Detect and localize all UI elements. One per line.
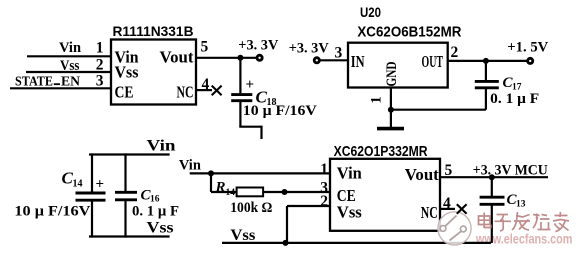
wire Vss to pin 2 bbox=[26, 71, 111, 73]
capacitor C17 bbox=[475, 81, 499, 87]
junction dot on CE net bbox=[282, 189, 288, 195]
watermark logo circle bbox=[438, 212, 471, 245]
svg-text:1: 1 bbox=[320, 161, 328, 178]
svg-text:100k Ω: 100k Ω bbox=[230, 200, 272, 216]
svg-text:+3. 3V MCU: +3. 3V MCU bbox=[473, 163, 548, 179]
wire C14 top lead bbox=[91, 153, 93, 192]
net label STATE_EN bbox=[15, 74, 80, 89]
svg-text:+3. 3V: +3. 3V bbox=[238, 38, 278, 54]
svg-text:Vin: Vin bbox=[147, 138, 176, 155]
svg-text:2: 2 bbox=[320, 193, 328, 210]
label C18 bbox=[256, 88, 277, 109]
junction dot Vss rail bbox=[283, 240, 289, 246]
watermark text dianzifashaoyou bbox=[479, 212, 570, 232]
svg-text:10 μ F/16V: 10 μ F/16V bbox=[14, 204, 90, 220]
svg-text:+1. 5V: +1. 5V bbox=[507, 40, 548, 56]
svg-text:NC: NC bbox=[177, 83, 194, 102]
svg-text:0. 1 μ F: 0. 1 μ F bbox=[490, 91, 539, 107]
svg-text:Vin: Vin bbox=[337, 164, 363, 183]
svg-text:Vin: Vin bbox=[179, 158, 202, 174]
regulator IC3 XC6201P332MR body bbox=[330, 159, 440, 231]
capacitor C16 bbox=[115, 192, 137, 200]
svg-text:2: 2 bbox=[96, 57, 104, 74]
wire Vin to IC3 pin 1 bbox=[190, 172, 330, 174]
wire C18 bottom down bbox=[239, 101, 241, 127]
svg-text:IN: IN bbox=[351, 52, 365, 71]
wire +3.3V node down to C18 bbox=[239, 58, 241, 93]
svg-text:OUT: OUT bbox=[422, 52, 444, 71]
svg-text:3: 3 bbox=[335, 45, 343, 62]
wire STATE_EN to pin 3 bbox=[10, 87, 111, 89]
svg-text:R1111N331B: R1111N331B bbox=[113, 23, 194, 39]
wire Vout pin 5 to +3.3V MCU bbox=[440, 176, 548, 178]
svg-text:Vss: Vss bbox=[147, 220, 174, 237]
svg-text:R: R bbox=[215, 180, 226, 196]
wire R14 right lead to CE pin 3 bbox=[263, 191, 330, 193]
wire C18 bottom right jog bbox=[239, 126, 261, 128]
junction dot OUT net bbox=[483, 58, 489, 64]
wire Vout net down to C13 bbox=[491, 177, 493, 196]
capacitor C13 bbox=[480, 197, 505, 204]
svg-text:CE: CE bbox=[115, 83, 134, 102]
capacitor C14 bbox=[76, 193, 106, 200]
wire C16 top lead bbox=[124, 153, 126, 192]
wire junction down to R14 bbox=[210, 173, 212, 192]
terminal +3.3V (IC1 output) bbox=[257, 55, 262, 60]
wire C18 bottom down stub bbox=[260, 126, 262, 139]
svg-text:14: 14 bbox=[73, 179, 83, 190]
terminal +1.5V bbox=[528, 58, 533, 63]
wire cap bank top rail bbox=[89, 153, 170, 155]
label C17 bbox=[503, 75, 522, 93]
label C13 bbox=[507, 192, 526, 210]
wire C17 bottom to GND junction bbox=[391, 109, 486, 111]
svg-text:14: 14 bbox=[226, 188, 236, 198]
wire Vin to pin 1 bbox=[27, 55, 111, 57]
svg-text:1: 1 bbox=[96, 40, 104, 57]
wire Vss pin 2 down to Vss rail bbox=[286, 206, 288, 243]
label C16 bbox=[141, 188, 160, 205]
terminal +3.3V (U20 input) bbox=[314, 58, 319, 63]
ground symbol bbox=[377, 110, 404, 129]
junction dot on Vout net bbox=[237, 55, 243, 61]
wire C13 bottom down to Vss rail bbox=[491, 204, 493, 243]
wire cap bank bottom rail bbox=[89, 235, 170, 237]
wire C16 bottom lead bbox=[124, 200, 126, 238]
wire to R14 left lead bbox=[211, 191, 237, 193]
wire OUT pin 2 to +1.5V terminal bbox=[448, 60, 528, 62]
svg-text:13: 13 bbox=[516, 200, 526, 210]
wire OUT net down to C17 bbox=[485, 61, 487, 81]
wire pin 4 NC stub bbox=[196, 89, 212, 91]
label C14 bbox=[62, 169, 83, 190]
wire Vss pin 2 of IC3 bbox=[287, 205, 330, 207]
regulator U20 body bbox=[348, 43, 448, 88]
svg-text:2: 2 bbox=[451, 44, 459, 61]
svg-text:GND: GND bbox=[384, 61, 400, 86]
svg-text:Vout: Vout bbox=[160, 48, 194, 67]
regulator IC1 R1111N331B body bbox=[111, 40, 196, 105]
svg-text:U20: U20 bbox=[360, 5, 381, 20]
wire C17 bottom down bbox=[485, 88, 487, 110]
svg-text:Vin: Vin bbox=[59, 40, 82, 56]
wire C14 bottom lead bbox=[91, 200, 93, 237]
svg-text:0. 1 μ F: 0. 1 μ F bbox=[132, 204, 179, 220]
svg-text:STATE: STATE bbox=[15, 74, 53, 89]
svg-text:XC62O1P332MR: XC62O1P332MR bbox=[334, 143, 428, 160]
svg-text:3: 3 bbox=[96, 73, 104, 90]
svg-text:XC62O6B152MR: XC62O6B152MR bbox=[357, 24, 461, 41]
svg-text:Vout: Vout bbox=[405, 165, 439, 184]
wire GND pin 1 down bbox=[390, 88, 392, 110]
resistor R14 bbox=[237, 188, 264, 197]
wire Vss rail bbox=[222, 242, 491, 244]
svg-text:NC: NC bbox=[421, 203, 438, 222]
svg-text:EN: EN bbox=[61, 74, 80, 89]
svg-text:Vss: Vss bbox=[337, 203, 362, 222]
no-connect X on pin 4 bbox=[212, 86, 222, 96]
svg-text:+: + bbox=[96, 177, 105, 193]
wire pin 5 Vout to +3.3V terminal bbox=[196, 57, 257, 59]
no-connect X on pin 4 (IC3, over watermark) bbox=[457, 204, 467, 214]
junction dot GND net bbox=[388, 107, 394, 113]
capacitor C18 bbox=[231, 95, 252, 101]
svg-text:Vss: Vss bbox=[230, 227, 255, 244]
svg-text:+3. 3V: +3. 3V bbox=[289, 41, 329, 57]
wire terminal to IN pin 3 bbox=[320, 59, 349, 61]
svg-text:1: 1 bbox=[369, 96, 385, 104]
svg-text:Vss: Vss bbox=[115, 63, 139, 82]
svg-text:+: + bbox=[246, 77, 255, 93]
svg-text:10 μ F/16V: 10 μ F/16V bbox=[243, 103, 317, 119]
svg-text:www.elecfans.com: www.elecfans.com bbox=[475, 232, 572, 247]
svg-text:5: 5 bbox=[201, 39, 209, 56]
junction dot Vin/R14 bbox=[208, 170, 214, 176]
label R14 bbox=[215, 180, 236, 199]
junction dot Vout net bbox=[489, 174, 495, 180]
wire pin 4 NC stub (IC3) bbox=[440, 208, 455, 210]
